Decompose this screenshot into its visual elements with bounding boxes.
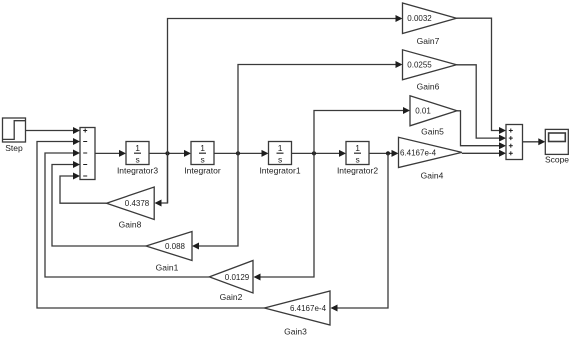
wire tap to Gain1 — [198, 153, 238, 246]
gain Gain7 — [403, 3, 457, 34]
sum block Sum2 — [506, 125, 523, 160]
svg-text:Integrator: Integrator — [184, 166, 221, 176]
svg-text:0.0255: 0.0255 — [407, 61, 432, 70]
wire Integrator1 to Integrator2 — [292, 152, 341, 154]
integrator Integrator3 — [126, 142, 149, 165]
wire Step to Sum1 input1 — [26, 130, 75, 132]
plus sign Sum2 input1 — [509, 129, 513, 133]
svg-text:Gain3: Gain3 — [284, 327, 307, 337]
wire Gain3 to Sum1 input2 — [37, 142, 264, 309]
sum block Sum1 — [80, 128, 95, 180]
svg-text:Gain1: Gain1 — [156, 263, 179, 273]
wire Sum2 to Scope — [523, 141, 540, 143]
svg-text:s: s — [200, 155, 204, 165]
svg-text:0.0129: 0.0129 — [225, 273, 250, 282]
svg-text:1: 1 — [278, 143, 283, 153]
scope Scope — [545, 129, 568, 154]
wire Integrator3 to Integrator — [149, 152, 185, 154]
svg-text:0.0032: 0.0032 — [407, 14, 432, 23]
minus sign Sum1 input5 — [83, 175, 87, 177]
plus sign Sum2 input2 — [509, 136, 513, 140]
wire Gain5 to Sum2 input3 — [457, 111, 500, 146]
plus sign Sum2 input4 — [509, 151, 513, 155]
wire Gain4 to Sum2 input4 — [462, 152, 500, 154]
svg-text:Step: Step — [5, 143, 23, 153]
svg-text:0.4378: 0.4378 — [125, 199, 150, 208]
gain Gain8 — [107, 187, 155, 220]
wire Integrator to Integrator1 — [214, 152, 263, 154]
value 1/s Integrator — [200, 143, 205, 165]
step source Step — [3, 118, 26, 142]
wire tap to Gain2 — [260, 153, 315, 277]
integrator Integrator1 — [269, 142, 292, 165]
svg-text:s: s — [135, 155, 139, 165]
svg-text:1: 1 — [355, 143, 360, 153]
svg-text:0.01: 0.01 — [415, 107, 431, 116]
svg-text:Integrator2: Integrator2 — [337, 166, 378, 176]
integrator Integrator — [191, 142, 214, 165]
gain Gain2 — [209, 261, 253, 294]
wire Gain2 to Sum1 input3 — [45, 153, 209, 277]
gain Gain5 — [410, 96, 457, 126]
wire Sum1 to Integrator3 — [95, 152, 120, 154]
svg-text:s: s — [355, 155, 359, 165]
svg-text:Gain2: Gain2 — [220, 292, 243, 302]
wire Gain8 to Sum1 input5 — [60, 176, 107, 203]
wire Gain6 to Sum2 input2 — [457, 65, 501, 138]
wire tap to Gain7 — [168, 19, 397, 204]
minus sign Sum1 input2 — [83, 141, 87, 143]
value 1/s Integrator2 — [355, 143, 360, 165]
plus sign Sum2 input3 — [509, 144, 513, 148]
minus sign Sum1 input3 — [83, 152, 87, 154]
gain Gain6 — [403, 50, 457, 80]
node junction after Integrator1 — [312, 151, 316, 155]
wire Gain1 to Sum1 input4 — [52, 165, 146, 247]
wire tap to Gain5 — [314, 111, 404, 154]
gain Gain3 — [264, 291, 330, 325]
svg-text:6.4167e-4: 6.4167e-4 — [400, 149, 437, 158]
wire tap to Gain3 — [337, 153, 389, 308]
wire tap to Gain8 — [161, 153, 168, 203]
svg-text:s: s — [278, 155, 282, 165]
svg-text:6.4167e-4: 6.4167e-4 — [290, 304, 327, 313]
svg-text:Gain5: Gain5 — [421, 127, 444, 137]
wire tap to Gain6 — [238, 65, 397, 154]
svg-text:1: 1 — [135, 143, 140, 153]
plus sign Sum1 input1 — [83, 129, 87, 133]
wire Gain7 to Sum2 input1 — [457, 18, 501, 130]
svg-text:Integrator1: Integrator1 — [259, 166, 300, 176]
svg-text:Integrator3: Integrator3 — [117, 166, 158, 176]
node junction after Integrator — [236, 151, 240, 155]
wire Integrator2 to Gain4 — [369, 152, 393, 154]
svg-text:Gain4: Gain4 — [421, 170, 444, 180]
node junction after Integrator2 — [386, 151, 390, 155]
svg-text:Gain7: Gain7 — [417, 36, 440, 46]
value 1/s Integrator3 — [135, 143, 140, 165]
svg-text:Scope: Scope — [545, 155, 569, 165]
svg-text:0.088: 0.088 — [165, 242, 186, 251]
minus sign Sum1 input4 — [83, 164, 87, 166]
svg-text:Gain6: Gain6 — [417, 82, 440, 92]
svg-text:1: 1 — [200, 143, 205, 153]
integrator Integrator2 — [346, 142, 369, 165]
svg-text:Gain8: Gain8 — [119, 220, 142, 230]
gain Gain4 — [399, 137, 462, 167]
node junction after Integrator3 — [165, 151, 169, 155]
value 1/s Integrator1 — [278, 143, 283, 165]
gain Gain1 — [146, 232, 192, 261]
